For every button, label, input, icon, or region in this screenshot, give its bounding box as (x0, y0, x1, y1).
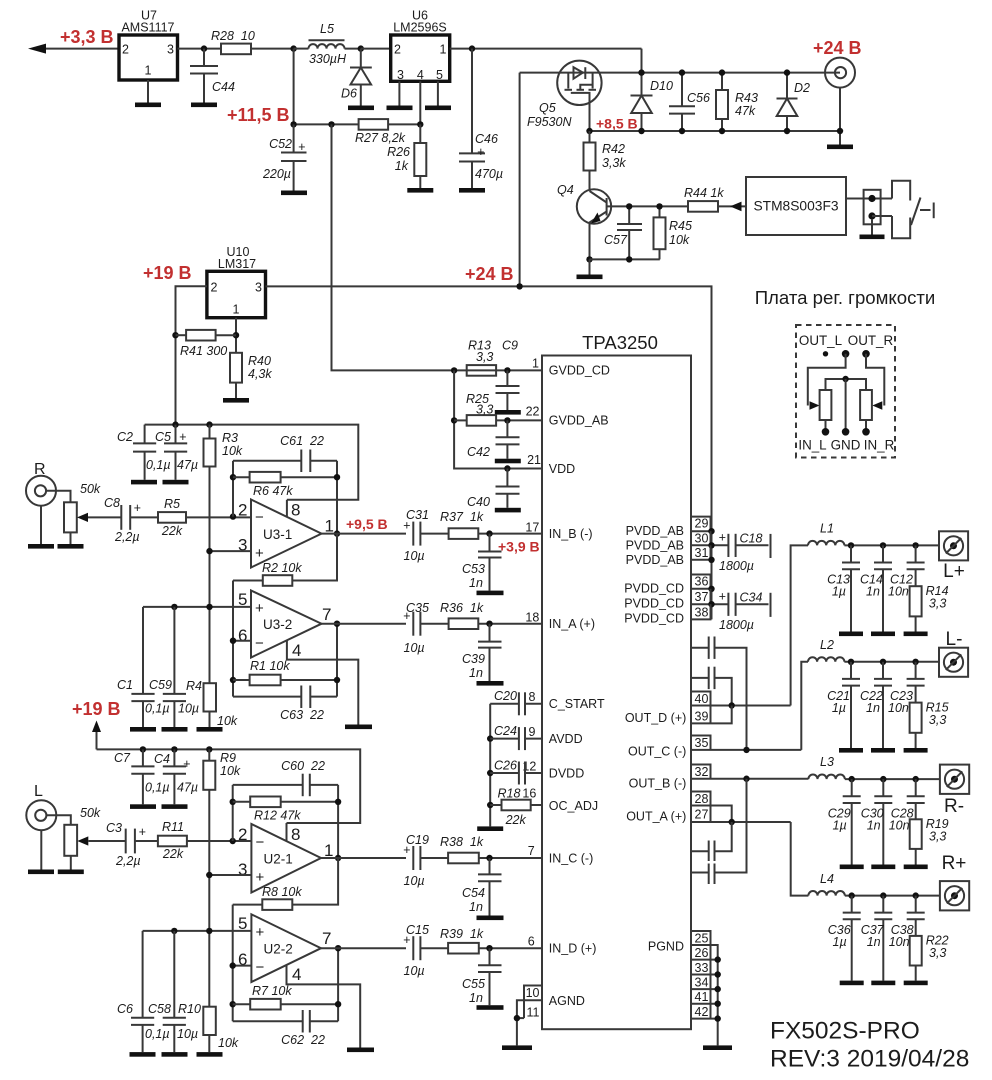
svg-text:5: 5 (238, 590, 247, 609)
svg-text:26: 26 (695, 946, 709, 960)
svg-text:R12 47k: R12 47k (254, 809, 301, 823)
node U2-2 output (335, 945, 341, 951)
svg-text:U2-1: U2-1 (264, 852, 293, 867)
node D10 top (638, 69, 644, 75)
wire emitter bottom row (590, 259, 660, 274)
wire pin12 DVDD (525, 772, 542, 774)
svg-text:U3-1: U3-1 (263, 527, 292, 542)
svg-text:R6 47k: R6 47k (253, 484, 293, 498)
svg-text:R42: R42 (602, 142, 625, 156)
svg-text:2: 2 (238, 501, 247, 520)
node C7 rail (140, 746, 146, 752)
wire +8,5V row (590, 130, 841, 132)
capacitor C59 10µ (149, 607, 199, 727)
node C57 top (626, 203, 632, 209)
pin 16 number (522, 786, 536, 800)
svg-text:2: 2 (211, 281, 218, 295)
wire pin1 GVDD_CD (454, 369, 542, 371)
svg-text:C57: C57 (604, 233, 628, 247)
svg-text:OUT_D (+): OUT_D (+) (625, 711, 686, 725)
svg-text:C20: C20 (494, 689, 517, 703)
svg-text:C42: C42 (467, 445, 490, 459)
pin 30 wire (691, 542, 728, 548)
svg-text:8: 8 (291, 825, 300, 844)
wire U2-2 pin4 ground (287, 965, 361, 1048)
potentiometer board right (860, 390, 872, 432)
resistor R8 10k (233, 858, 338, 910)
resistor R45 10k (654, 206, 692, 259)
svg-text:1n: 1n (469, 666, 483, 680)
switch SW1 (892, 181, 934, 239)
pin 10 number (526, 986, 540, 1000)
svg-text:40: 40 (695, 692, 709, 706)
svg-text:OUT_L: OUT_L (799, 333, 842, 348)
node R25 left (451, 417, 457, 423)
svg-text:3,3: 3,3 (929, 946, 946, 960)
node C5 rail (172, 421, 178, 427)
capacitor C7 0,1µ (114, 749, 170, 804)
ground C44 (191, 103, 217, 108)
label OUT_L (799, 333, 842, 348)
pad IN_L (822, 428, 830, 436)
svg-text:39: 39 (695, 710, 709, 724)
wire pot board left (808, 354, 846, 410)
svg-text:4: 4 (292, 641, 301, 660)
svg-text:PGND: PGND (648, 940, 684, 954)
resistor R2 10k (233, 534, 337, 586)
svg-text:R18: R18 (498, 786, 521, 800)
pin 41 wire (691, 1001, 721, 1007)
svg-text:5: 5 (436, 68, 443, 82)
node C37 (880, 892, 886, 898)
svg-text:C44: C44 (212, 80, 235, 94)
svg-text:PVDD_AB: PVDD_AB (626, 524, 684, 538)
ground +24 terminal (827, 145, 853, 150)
ground C4 (162, 804, 188, 809)
svg-text:10k: 10k (220, 764, 241, 778)
amplifier U1 TPA3250 (542, 332, 691, 1029)
ground R4 (197, 727, 223, 732)
wire U6 pin1 to C46 (450, 48, 642, 50)
svg-text:2,2µ: 2,2µ (114, 530, 140, 544)
svg-text:+3,9 В: +3,9 В (498, 539, 540, 555)
wire GVDD feed (332, 124, 455, 370)
wire +24V rail (266, 286, 712, 619)
svg-text:16: 16 (522, 786, 536, 800)
svg-text:L-: L- (946, 629, 963, 650)
svg-text:10k: 10k (669, 233, 690, 247)
svg-text:C_START: C_START (549, 697, 605, 711)
svg-text:+11,5 В: +11,5 В (227, 105, 290, 125)
svg-text:+: + (255, 600, 264, 617)
node U3-1 pin2 (230, 513, 236, 519)
pin box 36 (691, 575, 711, 589)
svg-text:L3: L3 (820, 755, 834, 769)
wire U2-2 pin5 (143, 930, 252, 932)
svg-text:C9: C9 (502, 339, 518, 353)
svg-text:+: + (298, 140, 305, 154)
pin 34 wire (691, 986, 721, 992)
svg-text:28: 28 (695, 792, 709, 806)
wire U10 pin1 (235, 318, 237, 353)
svg-text:REV:3 2019/04/28: REV:3 2019/04/28 (770, 1046, 969, 1073)
wire +24V drop (519, 73, 521, 287)
ground C23 R15 (904, 748, 928, 753)
node C30 (880, 776, 886, 782)
pin box 41 (695, 989, 711, 1004)
wire U3-2 pin5 (143, 606, 251, 608)
svg-text:R9: R9 (220, 751, 236, 765)
pin 31 wire (691, 557, 715, 563)
ground C12 R14 (904, 632, 928, 637)
svg-text:C62 22: C62 22 (281, 1033, 325, 1047)
svg-text:30: 30 (695, 532, 709, 546)
node R3 rail (206, 421, 212, 427)
svg-text:7: 7 (528, 844, 535, 858)
svg-text:R26: R26 (387, 145, 410, 159)
pin box 27 (695, 806, 711, 823)
wire pot board right (866, 354, 884, 410)
svg-text:+: + (719, 590, 726, 604)
svg-text:3,3: 3,3 (929, 597, 946, 611)
svg-text:+19 В: +19 В (72, 699, 121, 719)
svg-text:PVDD_CD: PVDD_CD (624, 612, 684, 626)
connector J1 (864, 190, 892, 235)
pin 18 number (525, 611, 539, 625)
pad OUT_L nc (823, 351, 828, 356)
diode D10 (631, 73, 673, 131)
pin 37 wire (691, 601, 728, 607)
ground R10 (197, 1052, 223, 1057)
node R41 right (233, 332, 239, 338)
svg-text:STM8S003F3: STM8S003F3 (753, 199, 838, 214)
pin 36 wire (691, 586, 715, 592)
ground C13 (839, 632, 863, 637)
net +9,5 В (346, 516, 388, 532)
node C36 (849, 892, 855, 898)
capacitor C9 (496, 370, 520, 410)
svg-text:C24: C24 (494, 724, 517, 738)
svg-text:Плата рег. громкости: Плата рег. громкости (755, 287, 936, 308)
node U3-1 output (334, 530, 340, 536)
svg-text:2: 2 (238, 825, 247, 844)
svg-text:L5: L5 (320, 22, 334, 36)
wire U3-2 output drop (336, 624, 338, 697)
capacitor C4 47µ (154, 749, 198, 804)
svg-text:38: 38 (695, 606, 709, 620)
svg-text:+: + (139, 825, 146, 839)
svg-text:C63 22: C63 22 (280, 708, 324, 722)
capacitor BST_D (691, 667, 732, 706)
svg-text:50k: 50k (80, 482, 101, 496)
svg-text:R3: R3 (222, 431, 238, 445)
svg-text:OUT_B (-): OUT_B (-) (629, 777, 687, 791)
svg-text:−: − (255, 635, 264, 652)
node C56 bottom (679, 128, 685, 134)
inductor L1 (808, 522, 939, 546)
ground PGND (703, 1045, 732, 1050)
svg-text:0,1µ: 0,1µ (146, 458, 171, 472)
svg-text:R40: R40 (248, 354, 271, 368)
svg-text:DVDD: DVDD (549, 766, 584, 780)
node C26 (487, 770, 493, 776)
potentiometer R input 50k (64, 482, 121, 544)
svg-text:1n: 1n (867, 819, 881, 833)
node D6 top (358, 45, 364, 51)
svg-text:D6: D6 (341, 87, 357, 101)
svg-text:21: 21 (527, 453, 541, 467)
svg-text:4: 4 (292, 965, 301, 984)
pin 1 number (532, 357, 539, 371)
svg-text:50k: 50k (80, 806, 101, 820)
svg-text:−: − (256, 834, 265, 851)
node C55 (486, 945, 492, 951)
wire U3-1 pin8 (286, 500, 288, 517)
capacitor C62 22 (233, 1010, 338, 1047)
wire R2 to pin6 (232, 581, 234, 697)
capacitor C2 0,1µ (117, 425, 171, 480)
svg-text:3,3: 3,3 (929, 713, 946, 727)
svg-text:1n: 1n (469, 991, 483, 1005)
svg-text:31: 31 (695, 546, 709, 560)
svg-text:C56: C56 (687, 91, 710, 105)
node C9 (504, 367, 510, 373)
svg-text:GVDD_CD: GVDD_CD (549, 364, 610, 378)
svg-text:10µ: 10µ (177, 1027, 198, 1041)
capacitor C8 2,2µ (104, 496, 158, 544)
svg-text:C40: C40 (467, 495, 490, 509)
svg-text:8: 8 (529, 690, 536, 704)
pin 29 wire (691, 528, 715, 534)
svg-text:−: − (256, 959, 265, 976)
resistor R40 4,3k (230, 353, 272, 398)
svg-text:FX502S-PRO: FX502S-PRO (770, 1018, 920, 1045)
svg-text:27: 27 (695, 808, 709, 822)
svg-text:C5: C5 (155, 430, 171, 444)
svg-text:10: 10 (526, 986, 540, 1000)
regulator U6 LM2596S (391, 9, 450, 125)
net +11,5 В (227, 105, 290, 125)
capacitor C40 (467, 469, 520, 510)
svg-text:C58: C58 (148, 1002, 171, 1016)
pin 22 number (526, 405, 540, 419)
capacitor C34 1800µ (719, 590, 771, 633)
pin box 39 (695, 706, 711, 724)
pin box 40 (691, 692, 711, 706)
svg-text:10µ: 10µ (404, 874, 425, 888)
node Q5 drain (586, 128, 592, 134)
svg-text:10n: 10n (889, 935, 910, 949)
svg-text:+: + (719, 531, 726, 545)
capacitor C18 1800µ (719, 531, 771, 574)
svg-text:OC_ADJ: OC_ADJ (549, 799, 598, 813)
svg-text:1µ: 1µ (833, 819, 847, 833)
svg-text:Q4: Q4 (557, 183, 574, 197)
ground C29 (840, 865, 864, 870)
volume board title (755, 287, 936, 308)
resistor R27 8,2k (355, 119, 420, 145)
svg-text:3: 3 (167, 43, 174, 57)
ground C5 (163, 480, 189, 485)
resistor R42 3,3k (584, 131, 627, 191)
resistor R44 1k (684, 186, 746, 212)
capacitor C13 1µ (827, 545, 860, 631)
svg-text:2,2µ: 2,2µ (115, 854, 141, 868)
resistor R14 3,3 (910, 584, 949, 632)
svg-text:L+: L+ (943, 561, 965, 582)
svg-text:47µ: 47µ (177, 458, 198, 472)
svg-text:C7: C7 (114, 751, 131, 765)
terminal R- (940, 765, 969, 817)
connector R RCA (26, 461, 71, 544)
pin 9 number (529, 725, 536, 739)
ground C46 (459, 188, 485, 193)
svg-text:C61 22: C61 22 (280, 434, 324, 448)
capacitor C42 (467, 420, 520, 459)
pin box 35 (691, 736, 711, 750)
svg-text:C2: C2 (117, 430, 133, 444)
svg-text:C4: C4 (154, 752, 170, 766)
capacitor C56 (669, 73, 710, 131)
capacitor C37 1n (861, 896, 893, 981)
svg-text:22k: 22k (505, 813, 527, 827)
svg-text:41: 41 (695, 990, 709, 1004)
svg-text:R43: R43 (735, 91, 758, 105)
svg-text:10k: 10k (217, 714, 238, 728)
pin 35 wire OUT_C (691, 747, 801, 753)
wire pin22 GVDD_AB (496, 419, 542, 421)
svg-text:1n: 1n (469, 900, 483, 914)
svg-text:IN_B (-): IN_B (-) (549, 527, 593, 541)
svg-text:1800µ: 1800µ (719, 618, 754, 632)
capacitor C20 (490, 689, 525, 715)
capacitor C26 (490, 759, 525, 785)
svg-text:10k: 10k (222, 444, 243, 458)
ground C42 (495, 459, 521, 464)
capacitor C5 47µ (155, 425, 198, 480)
wire +19V rail R channel (145, 425, 359, 500)
wire Q5 source row (520, 72, 840, 74)
pin box 42 (695, 1004, 711, 1019)
svg-text:4: 4 (417, 68, 424, 82)
ground C36 (840, 981, 864, 986)
capacitor C54 1n (462, 858, 502, 916)
svg-text:36: 36 (695, 575, 709, 589)
capacitor C35 10µ (403, 601, 449, 655)
pin 27 wire OUT_A (691, 819, 791, 825)
pin 6 number (528, 935, 535, 949)
wire +19V rail L channel (97, 749, 361, 823)
ground C1 (130, 727, 156, 732)
wire GVDD left branch (454, 370, 507, 468)
ground C6 (130, 1052, 156, 1057)
node C22 (880, 659, 886, 665)
resistor R4 10k (186, 679, 238, 728)
resistor R37 1k (440, 510, 542, 539)
inductor L5 330µH (294, 22, 361, 66)
svg-text:R36 1k: R36 1k (440, 601, 484, 615)
wire to U6 pin2 (361, 48, 391, 50)
svg-text:R28 10: R28 10 (211, 29, 255, 43)
node pin5 bias (206, 604, 212, 610)
svg-text:U2-2: U2-2 (264, 942, 293, 957)
pin 38 wire (691, 618, 712, 620)
capacitor C53 1n (462, 534, 502, 591)
svg-text:C18: C18 (740, 532, 763, 546)
svg-text:10n: 10n (889, 819, 910, 833)
svg-text:32: 32 (695, 765, 709, 779)
ground C58 (162, 1052, 188, 1057)
pin 8 number (529, 690, 536, 704)
svg-text:R39 1k: R39 1k (440, 927, 484, 941)
svg-text:+: + (255, 545, 264, 562)
node +24 rail / Q5 feed (516, 283, 522, 289)
net +3,3 В (60, 27, 114, 47)
svg-text:IN_L: IN_L (798, 438, 826, 453)
wire U3-1 feedback left (232, 461, 234, 517)
node R18 (487, 802, 493, 808)
capacitor C55 1n (462, 948, 502, 1005)
svg-text:3,3: 3,3 (476, 403, 493, 417)
capacitor C22 1n (860, 662, 892, 748)
wire board center down (845, 379, 847, 432)
node C14 (880, 542, 886, 548)
ground C37 (871, 981, 895, 986)
pad IN_R (862, 428, 870, 436)
svg-text:220µ: 220µ (262, 167, 291, 181)
svg-text:11: 11 (527, 1006, 540, 1020)
net +24 В rail label (465, 264, 514, 284)
wire U3-2 pin6 (233, 640, 251, 642)
svg-text:R1 10k: R1 10k (250, 659, 290, 673)
capacitor C61 22 (233, 434, 337, 472)
connector L RCA (26, 783, 71, 870)
svg-text:VDD: VDD (549, 462, 575, 476)
svg-text:AMS1117: AMS1117 (121, 21, 174, 35)
pin box 25 (691, 931, 711, 945)
svg-text:GND: GND (831, 438, 861, 453)
potentiometer board left (820, 390, 832, 432)
svg-text:C54: C54 (462, 886, 485, 900)
net +24 В top (813, 38, 862, 58)
svg-text:+24 В: +24 В (813, 38, 862, 58)
svg-text:C53: C53 (462, 562, 485, 576)
capacitor BST_A (691, 822, 732, 861)
svg-text:+9,5 В: +9,5 В (346, 516, 388, 532)
svg-text:R5: R5 (164, 497, 180, 511)
inductor L2 (808, 638, 939, 662)
svg-text:0,1µ: 0,1µ (145, 702, 170, 716)
net +3,9 В (498, 539, 540, 555)
pin 26 wire (691, 956, 721, 962)
svg-text:R37 1k: R37 1k (440, 510, 484, 524)
svg-text:17: 17 (525, 521, 539, 535)
node pin5 bias L (206, 928, 212, 934)
svg-text:2: 2 (122, 43, 129, 57)
wire OUT_C to L2 (801, 662, 808, 750)
node C28 (913, 776, 919, 782)
capacitor C29 1µ (828, 779, 861, 864)
svg-text:35: 35 (695, 736, 709, 750)
pin 33 wire (691, 971, 721, 977)
capacitor C57 (604, 206, 642, 259)
node Q4 emitter (586, 256, 592, 262)
svg-text:10n: 10n (888, 701, 909, 715)
node R43 bottom (719, 128, 725, 134)
pin 12 number (522, 759, 536, 773)
wire OUT_D to L1 (791, 545, 808, 705)
svg-text:1: 1 (532, 357, 539, 371)
